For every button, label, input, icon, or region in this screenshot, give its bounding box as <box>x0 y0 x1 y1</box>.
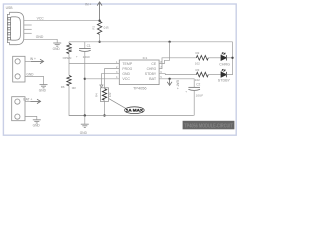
wire PROG <box>105 69 120 88</box>
wire LED rail (right vertical) <box>226 42 232 75</box>
svg-text:IC1: IC1 <box>143 56 148 60</box>
resistor R3 <box>196 72 208 77</box>
svg-text:GND: GND <box>122 72 130 76</box>
node: R4 rail junction <box>103 114 105 116</box>
wire TEMP <box>69 63 119 65</box>
wire VCC from USB <box>24 20 100 22</box>
svg-text:R4: R4 <box>95 93 99 97</box>
svg-text:CHRG: CHRG <box>147 67 157 71</box>
svg-text:TP4056 MODULE-CIRCUIT: TP4056 MODULE-CIRCUIT <box>184 123 233 129</box>
svg-text:+: + <box>76 54 78 58</box>
wire GND (J3) <box>25 116 37 119</box>
net arrow BAT+ <box>31 99 41 103</box>
node: BAT+ junction <box>168 78 170 80</box>
svg-text:GND: GND <box>39 89 47 93</box>
node: LED1 right junction <box>231 57 233 59</box>
svg-text:TEMP: TEMP <box>122 62 132 66</box>
LED2 STDBY <box>221 69 227 77</box>
svg-text:GND: GND <box>36 35 44 39</box>
svg-text:VCC: VCC <box>37 17 45 21</box>
svg-text:GND: GND <box>33 123 41 127</box>
wire IN+ <box>25 60 31 62</box>
resistor R2 <box>196 56 208 61</box>
resistor R6 (0R) <box>67 75 71 85</box>
svg-text:STDBY: STDBY <box>145 72 157 76</box>
IC IC1 TP4056 <box>119 60 159 85</box>
svg-text:1A MAX: 1A MAX <box>126 108 143 113</box>
capacitor C1 <box>84 42 86 49</box>
svg-text:GND: GND <box>53 47 61 51</box>
svg-text:TP4056: TP4056 <box>133 86 147 90</box>
svg-text:BAT +: BAT + <box>23 97 32 101</box>
connector J3 (battery terminal) <box>12 97 25 121</box>
ground symbol (J2) <box>40 85 48 88</box>
wire GND rail (bottom) <box>69 115 194 117</box>
title block <box>183 121 235 130</box>
wire D+ stub <box>24 28 32 30</box>
svg-text:R2: R2 <box>196 51 200 55</box>
svg-text:10UF: 10UF <box>196 94 204 98</box>
svg-text:CE: CE <box>151 62 156 66</box>
svg-text:STDBY: STDBY <box>218 79 231 83</box>
svg-text:IN +: IN + <box>30 57 36 61</box>
wire D- stub <box>24 24 32 26</box>
callout line <box>109 99 126 109</box>
wire LED1 to right rail <box>226 57 232 59</box>
resistor R5 (OPEN) <box>68 42 70 43</box>
wire divider mid <box>68 54 70 76</box>
wire VCC rail (top) <box>69 41 233 43</box>
wire BAT+ <box>25 100 31 102</box>
svg-text:R6: R6 <box>61 85 65 89</box>
svg-text:IN +: IN + <box>85 2 91 6</box>
svg-text:BAT: BAT <box>149 77 156 81</box>
wire R1 to rail <box>99 34 101 41</box>
svg-text:VCC: VCC <box>122 77 130 81</box>
node: rail junction CE <box>168 41 170 43</box>
svg-text:122: 122 <box>108 92 112 97</box>
resistor R4 (PROG set, boxed) <box>100 88 108 102</box>
wire VCC pin <box>85 78 120 80</box>
wire R2 to LED1 <box>208 57 221 59</box>
ground symbol (main rail) <box>84 116 86 125</box>
svg-text:R5: R5 <box>69 46 73 50</box>
svg-text:GND: GND <box>26 72 34 76</box>
ground symbol (USB) <box>53 43 61 46</box>
svg-text:10UF: 10UF <box>83 55 91 59</box>
ground symbol (J3) <box>33 120 41 123</box>
wire GND pin <box>101 74 119 85</box>
callout oval label <box>125 107 145 114</box>
wire STDBY <box>159 73 196 76</box>
svg-text:BAT +: BAT + <box>175 80 179 89</box>
net arrow BAT+ (down) <box>167 79 172 86</box>
wire GND from USB <box>24 39 57 43</box>
node: VCC pin junction on C1 line <box>84 78 86 80</box>
svg-text:R3: R3 <box>196 68 200 72</box>
svg-text:PROG: PROG <box>122 67 132 71</box>
frame border <box>3 4 236 135</box>
LED1 CHRG <box>221 53 227 61</box>
capacitor C2 <box>188 87 200 90</box>
net arrow IN+ (top) <box>97 2 102 21</box>
svg-text:102: 102 <box>195 78 200 82</box>
net arrow IN+ <box>31 59 44 63</box>
wire R4 to bottom rail <box>104 101 106 115</box>
svg-text:CHRG: CHRG <box>219 62 230 66</box>
wire CE <box>159 42 170 64</box>
wire BAT <box>159 79 194 88</box>
wire ID stub <box>24 32 32 34</box>
svg-text:OPEN: OPEN <box>63 56 72 60</box>
svg-text:+: + <box>185 89 187 93</box>
wire R3 to LED2 <box>208 74 221 76</box>
node: rail junction R1 <box>98 41 100 43</box>
node: C1 / GND sym junction <box>84 114 86 116</box>
connector J2 (input terminal) <box>13 56 25 82</box>
wire R6 to bottom rail <box>69 86 85 116</box>
ground arrow (IC GND pin) <box>100 85 103 87</box>
wire GND (J2) <box>25 76 44 84</box>
svg-text:GND: GND <box>80 131 88 135</box>
svg-text:102: 102 <box>195 61 200 65</box>
svg-text:USB: USB <box>6 6 14 10</box>
resistor R1 <box>97 21 101 34</box>
svg-text:R1: R1 <box>92 25 96 29</box>
svg-text:0 R: 0 R <box>104 26 110 30</box>
svg-text:C1: C1 <box>87 44 91 48</box>
node: VCC / R1 junction <box>98 20 100 22</box>
USB connector J1 <box>7 12 23 44</box>
svg-text:C2: C2 <box>196 83 200 87</box>
wire CHRG <box>159 58 196 69</box>
